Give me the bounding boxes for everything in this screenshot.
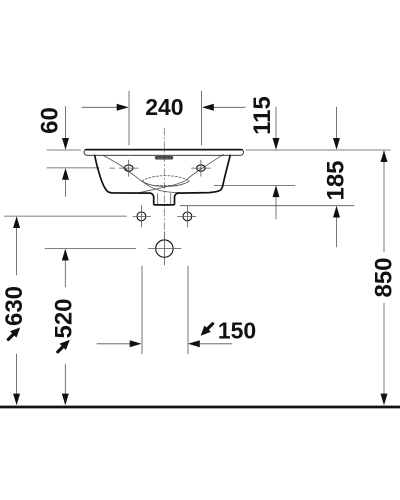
faucet hole left [124, 165, 133, 171]
dim line 240 left segment [82, 106, 127, 108]
dim 60 lower tail [65, 170, 67, 197]
svg-text:150: 150 [218, 317, 256, 343]
dim 60 upper tail [65, 107, 67, 149]
faucet hole right crosshair [192, 167, 211, 169]
arrow down tip 185 [333, 138, 340, 150]
arrow down tip 850 [381, 394, 388, 406]
drain inner bore right [170, 194, 172, 205]
dim 850 lower segment [383, 303, 385, 404]
mounting hole left [137, 212, 146, 221]
floor line [0, 406, 400, 409]
svg-text:630: 630 [1, 286, 28, 326]
dim 150 left tail [97, 343, 140, 345]
arrow down tip 630 [13, 394, 20, 406]
ref line 520 y248.5 [45, 248, 136, 250]
dim 115 upper tail [275, 107, 277, 148]
dim 150 right tail [190, 343, 233, 345]
arrow left tip 150 [188, 340, 200, 347]
washbasin interior curve left L1 [103, 155, 180, 192]
centerline basin vertical axis [163, 128, 165, 240]
centerline dash left of faucet hole [110, 167, 115, 169]
arrow up tip 630 [13, 216, 20, 228]
arrow down tip 520 [62, 394, 69, 406]
drain outlet circle [156, 240, 173, 257]
dim 520 upper segment [64, 250, 66, 287]
svg-text:240: 240 [145, 94, 183, 120]
faucet hole left crosshair [120, 167, 139, 169]
dim 630 upper segment [16, 218, 18, 276]
arrow down tip 115 [273, 138, 280, 150]
extension line 240 right [201, 91, 203, 145]
mounting hole right crosshair [178, 215, 197, 217]
mounting hole right [183, 212, 192, 221]
ref line y205.7 [180, 205, 354, 207]
extension line 150 right x188 [187, 266, 189, 354]
extension line 150 left x142 [141, 266, 143, 354]
dim 115 lower tail [275, 187, 277, 219]
dim 185 upper tail [336, 107, 338, 148]
mounting hole left crosshair [133, 215, 151, 217]
drain recess top arc dashed [142, 176, 190, 181]
dim 630 lower segment [16, 354, 18, 404]
svg-text:60: 60 [37, 107, 64, 134]
dim line 240 right segment [204, 106, 246, 108]
dim 850 upper segment [383, 152, 385, 253]
arrow up tip 520 [62, 249, 69, 261]
arrow up tip 850 [381, 150, 388, 162]
arrow up tip 60 [62, 168, 69, 180]
extension line 240 left [128, 91, 130, 145]
arrow right tip 150 [130, 340, 142, 347]
rim right extension line y150 [246, 149, 391, 151]
washbasin rim slab [84, 149, 244, 155]
overflow slot [155, 156, 173, 159]
washbasin interior curve right R1 [139, 154, 224, 193]
arrow down tip 60 [62, 138, 69, 150]
svg-text:185: 185 [323, 160, 350, 200]
arrow right tip 240 left [117, 104, 129, 111]
rim top edge bold [86, 149, 243, 151]
arrow left tip 240 right [202, 104, 214, 111]
dim 185 lower tail [336, 207, 338, 247]
faucet hole right [197, 165, 206, 171]
svg-text:850: 850 [371, 257, 398, 297]
ref line y185.5 [214, 185, 295, 187]
overflow slot hatching [157, 157, 172, 159]
drain outlet crosshair [148, 248, 181, 250]
ref line hole-level y167.9 [47, 167, 99, 169]
svg-text:520: 520 [51, 298, 78, 338]
ref line rim-left y150 [47, 149, 81, 151]
leader arrow 630 [5, 324, 23, 342]
dim 520 lower segment [64, 364, 66, 404]
drain inner bore left [157, 194, 159, 205]
svg-text:115: 115 [249, 96, 276, 135]
arrow up tip 185 [333, 206, 340, 218]
drain recess bottom arc [142, 181, 190, 186]
arrow up tip 115 [273, 185, 280, 197]
leader arrow 150 [197, 321, 215, 339]
washbasin outer wall and bottom [95, 155, 230, 205]
drain hole hidden line [153, 184, 177, 186]
ref line 630 y216.1 [5, 215, 127, 217]
leader arrow 520 [55, 337, 73, 355]
